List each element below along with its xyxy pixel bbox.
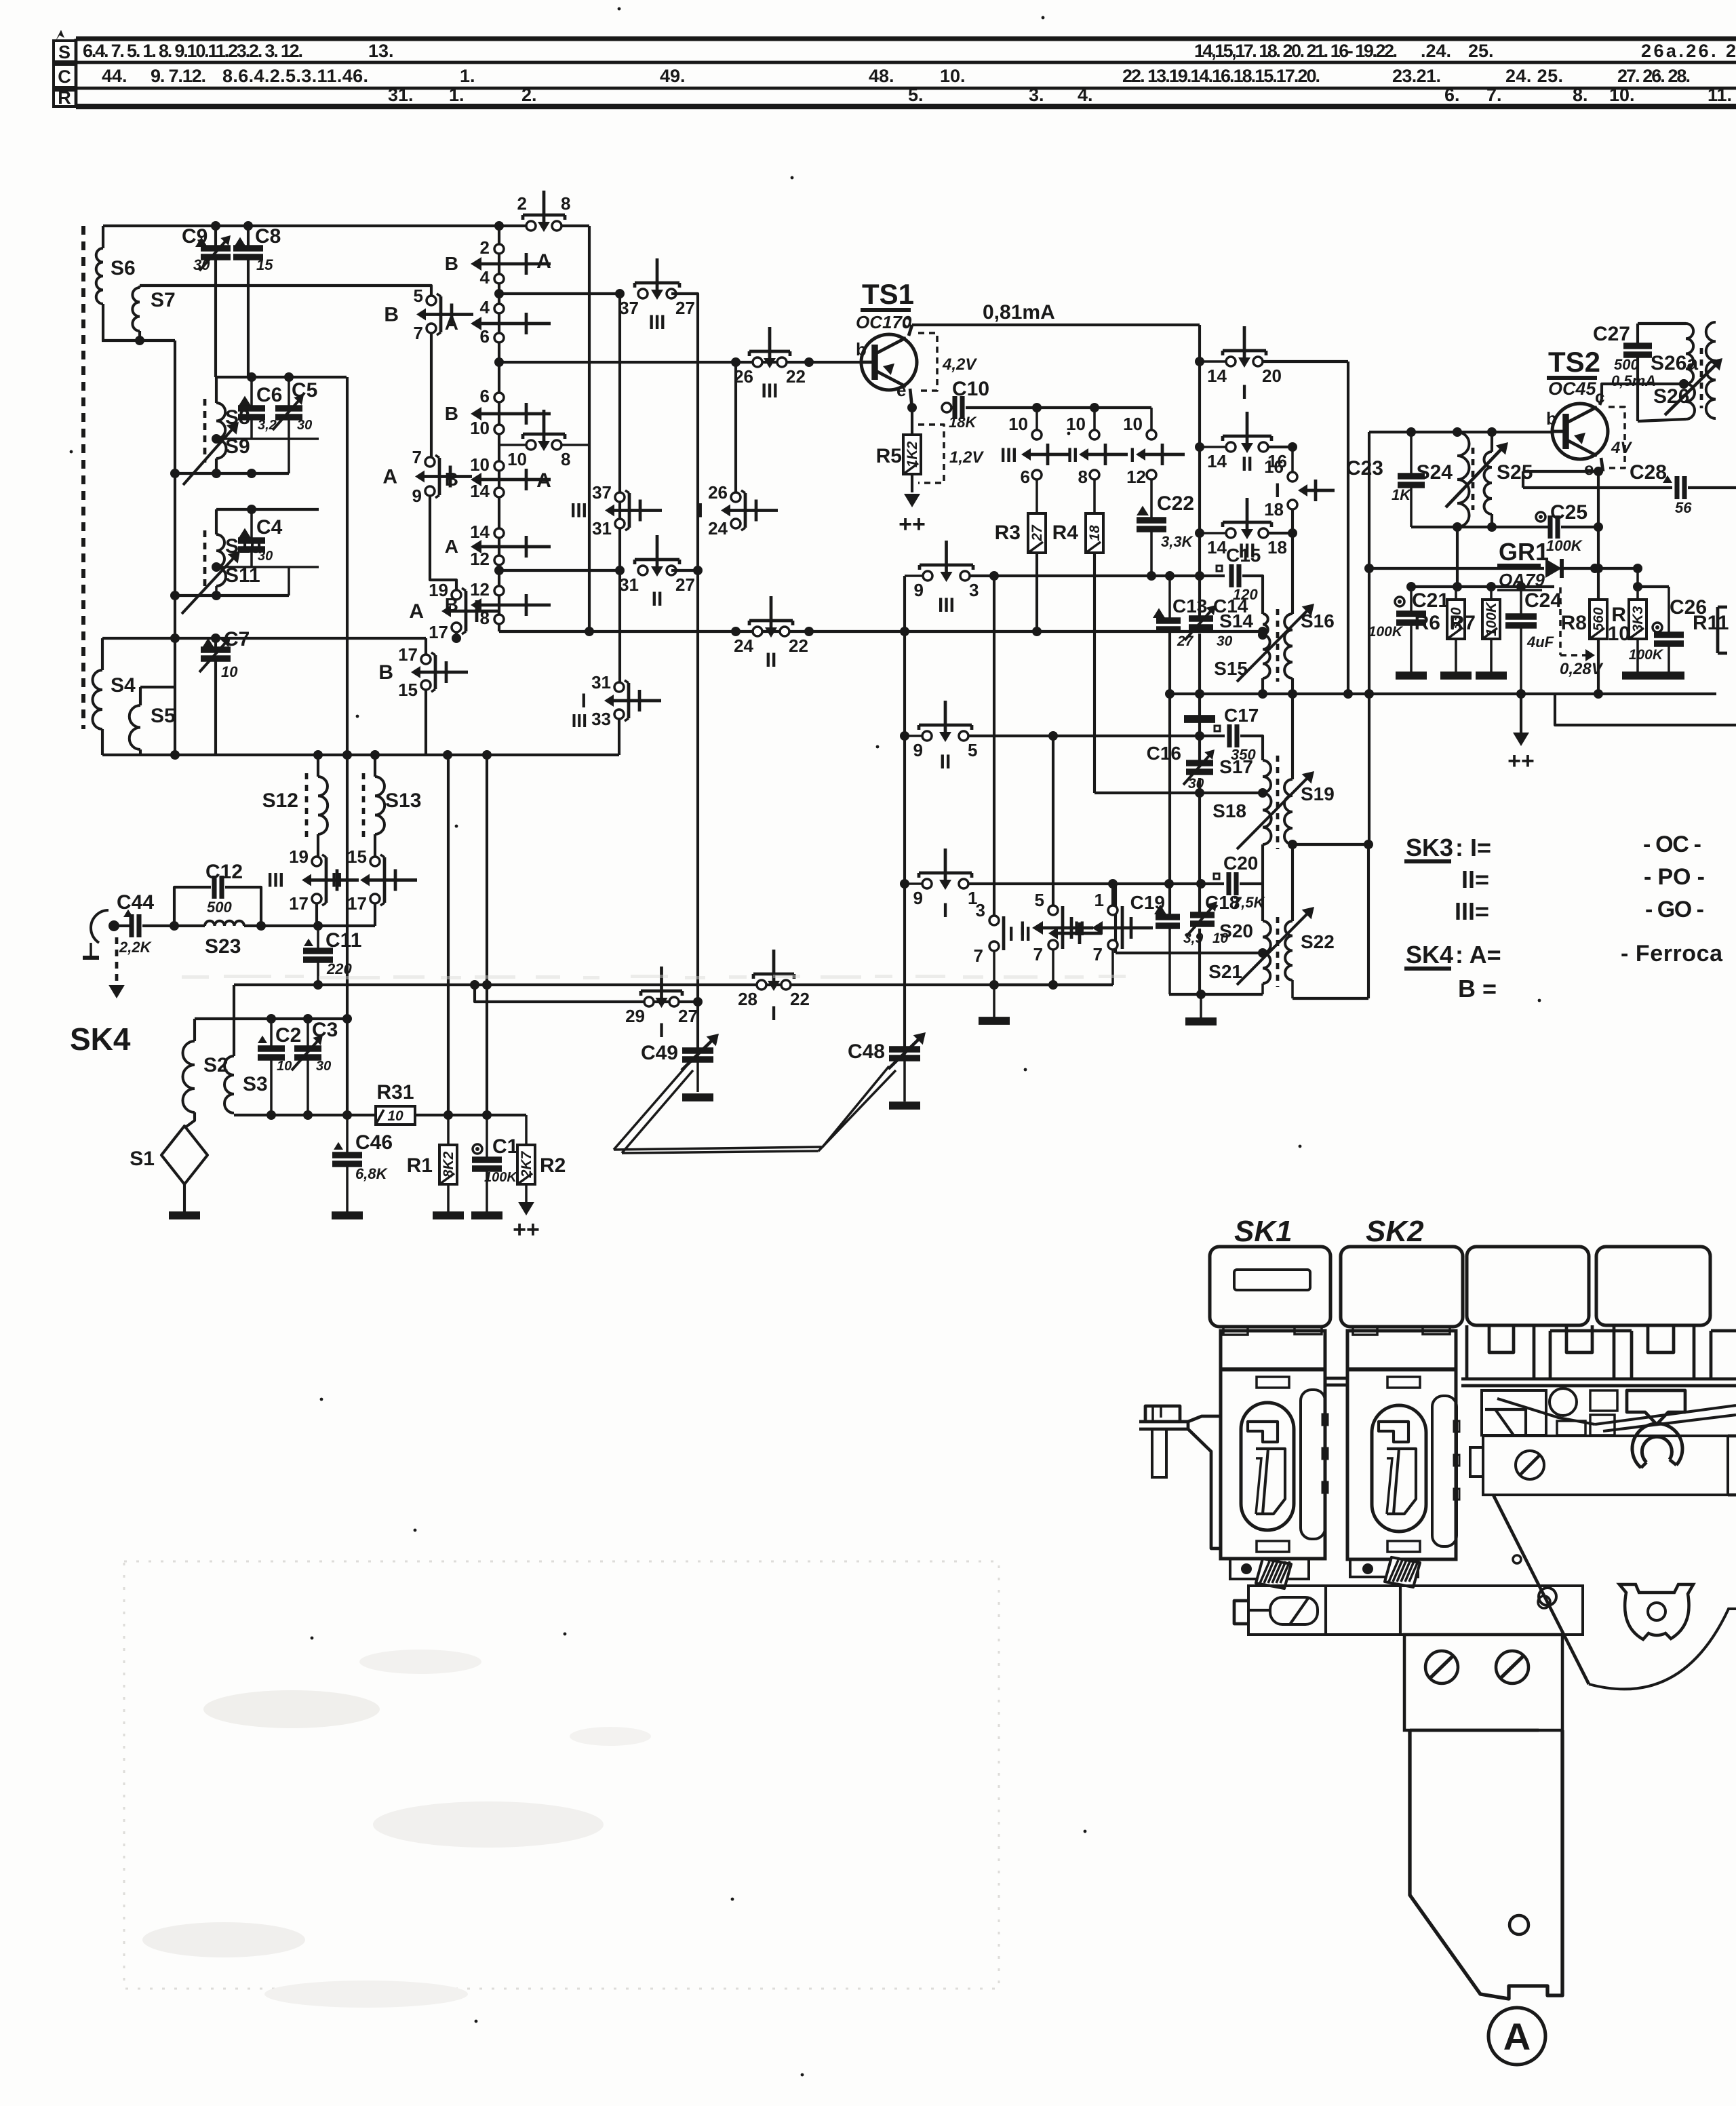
frame cable lines xyxy=(1595,1405,1736,1424)
capacitor C20 xyxy=(1214,874,1219,879)
switch contact pair 14/20 I xyxy=(1200,360,1227,363)
svg-text:3: 3 xyxy=(976,900,985,920)
wire 37/27 III rail xyxy=(499,292,620,295)
svg-text:18: 18 xyxy=(1087,525,1103,541)
svg-text:500: 500 xyxy=(207,899,232,916)
svg-text:III: III xyxy=(938,594,955,617)
svg-text:C20: C20 xyxy=(1223,853,1258,874)
svg-text:17: 17 xyxy=(398,644,418,665)
coil S21 xyxy=(1263,953,1270,983)
svg-text:7: 7 xyxy=(1093,944,1103,964)
svg-text:20: 20 xyxy=(1262,366,1282,386)
svg-text:10: 10 xyxy=(1123,414,1143,434)
frame slide plate xyxy=(1482,1390,1546,1435)
svg-text:S12: S12 xyxy=(262,789,298,812)
svg-text:II: II xyxy=(1067,444,1078,467)
svg-text:B: B xyxy=(445,253,458,274)
svg-text:28: 28 xyxy=(738,989,757,1009)
coil S15 xyxy=(1263,635,1270,678)
svg-text:560: 560 xyxy=(1591,607,1606,631)
wire S22 box to x2018 xyxy=(1293,997,1368,1000)
svg-text:10: 10 xyxy=(470,454,490,475)
switch contact pair 14/18 III xyxy=(1200,532,1227,534)
ground below switch rail xyxy=(993,985,995,1017)
capacitor C23 xyxy=(1410,432,1413,474)
wire row 9/3 to C15 xyxy=(969,574,1225,577)
svg-text:10.: 10. xyxy=(940,66,966,86)
svg-text:R11: R11 xyxy=(1693,612,1729,634)
wire S10 box top xyxy=(216,508,319,511)
switch 17/B/15 xyxy=(434,655,437,689)
svg-text:1.: 1. xyxy=(460,66,475,86)
svg-text:9. 7.12.: 9. 7.12. xyxy=(151,66,206,86)
svg-text:B: B xyxy=(445,469,458,490)
wire R10 to C26 xyxy=(1638,585,1669,588)
switch 3/I II/7 xyxy=(993,576,995,916)
svg-text:I: I xyxy=(1275,480,1280,502)
switch 31/I-III/33 xyxy=(627,683,631,718)
svg-text:C2: C2 xyxy=(275,1024,301,1047)
switch contact pair 2/8 A xyxy=(523,214,565,217)
svg-text:12: 12 xyxy=(1126,467,1146,487)
resistor R6 xyxy=(1455,587,1457,600)
svg-text:B =: B = xyxy=(1458,975,1497,1002)
svg-text:22. 13.19.14.16.18.15.17.20.: 22. 13.19.14.16.18.15.17.20. xyxy=(1122,66,1320,86)
svg-text:5: 5 xyxy=(414,286,423,306)
wire C23 S24 bottom xyxy=(1411,526,1492,528)
svg-text:III: III xyxy=(648,311,665,334)
diode GR1 xyxy=(1545,559,1562,578)
coil S25 xyxy=(1491,432,1493,452)
svg-text:22: 22 xyxy=(786,366,806,387)
svg-text:3.: 3. xyxy=(1029,85,1044,105)
wire bottom contacts rail xyxy=(993,983,1113,986)
mount bracket left xyxy=(1139,1422,1188,1429)
svg-text:100K: 100K xyxy=(484,1170,517,1185)
svg-text:++: ++ xyxy=(513,1217,540,1243)
svg-text:C4: C4 xyxy=(256,516,283,539)
contacts 10/14 B xyxy=(494,461,504,471)
svg-text:2,2K: 2,2K xyxy=(119,939,153,956)
wire 31/27 to x1029 xyxy=(671,569,698,572)
scan specks xyxy=(618,7,621,11)
svg-text:17: 17 xyxy=(289,893,309,914)
svg-text:17: 17 xyxy=(429,622,448,642)
svg-text:C48: C48 xyxy=(848,1040,885,1063)
svg-text:1: 1 xyxy=(1094,890,1104,910)
svg-text:C12: C12 xyxy=(205,861,243,883)
resistor R8 xyxy=(1590,600,1607,639)
pulley plate xyxy=(1493,1495,1589,1684)
svg-text:C44: C44 xyxy=(117,891,154,914)
svg-text:2: 2 xyxy=(517,193,527,214)
transistor TS2 xyxy=(1552,404,1608,459)
contacts 2/4 B xyxy=(494,244,504,254)
wire TS1 base rail xyxy=(499,361,863,364)
svg-text:II: II xyxy=(1242,453,1253,475)
wire x661 from top xyxy=(447,755,450,1115)
svg-text:I II: I II xyxy=(1008,923,1031,945)
plate hole small xyxy=(1539,1588,1556,1605)
svg-text:5: 5 xyxy=(1035,890,1044,910)
svg-text:9: 9 xyxy=(913,888,923,908)
svg-text:TS2: TS2 xyxy=(1548,346,1600,378)
wire S10/S11 tap xyxy=(216,566,319,568)
svg-text:C7: C7 xyxy=(224,628,250,650)
svg-text:A: A xyxy=(445,313,458,334)
key body 1 outline xyxy=(1221,1331,1325,1559)
svg-text:S22: S22 xyxy=(1301,931,1335,952)
wire rail y1477 xyxy=(475,985,698,1002)
wire lower rail to right edge xyxy=(1555,694,1736,725)
key cap 3 xyxy=(1467,1247,1589,1325)
svg-text:8.: 8. xyxy=(1573,85,1588,105)
svg-text:23.21.: 23.21. xyxy=(1392,66,1441,86)
core S10/S11 dashed xyxy=(203,530,207,590)
core T2 dashed xyxy=(1276,756,1280,849)
svg-text:5.: 5. xyxy=(908,85,924,105)
svg-text:30: 30 xyxy=(1217,633,1233,649)
arrow T3 tuning xyxy=(1237,912,1309,985)
svg-text:I: I xyxy=(581,690,587,712)
node TS1 emitter xyxy=(907,403,917,412)
wire C15 to S14 xyxy=(1242,576,1263,614)
svg-text:S20: S20 xyxy=(1219,920,1253,941)
switch 10/III/6 xyxy=(1035,408,1038,430)
svg-text:4uF: 4uF xyxy=(1526,633,1554,650)
view label A xyxy=(1488,2008,1545,2065)
svg-text:II: II xyxy=(331,870,342,892)
base plate left step xyxy=(1234,1601,1248,1624)
capacitor C25 xyxy=(1536,512,1545,522)
svg-text:24. 25.: 24. 25. xyxy=(1505,66,1563,86)
svg-text:e: e xyxy=(896,380,906,400)
capacitor C4 xyxy=(239,528,251,538)
key cap 4 xyxy=(1596,1247,1710,1325)
row label box R xyxy=(54,90,76,106)
svg-text:S18: S18 xyxy=(1212,800,1246,821)
switch contact pair 26/22 III xyxy=(749,350,790,353)
svg-text:30: 30 xyxy=(193,256,210,273)
svg-text:- Ferroca: - Ferroca xyxy=(1621,941,1723,967)
svg-text:31: 31 xyxy=(592,518,612,539)
svg-text:14,15,17. 18. 20. 21. 16- 19.2: 14,15,17. 18. 20. 21. 16- 19.22. xyxy=(1194,41,1398,61)
tank box C27 S26 xyxy=(1638,322,1686,325)
svg-text:C25: C25 xyxy=(1550,501,1587,524)
switch row 9/5 II xyxy=(900,731,909,741)
wire below 9 xyxy=(430,496,456,590)
svg-text:: A=: : A= xyxy=(1455,941,1501,969)
capacitor C18 xyxy=(1190,912,1215,918)
svg-text:19: 19 xyxy=(289,846,309,867)
wire C7 rail xyxy=(102,637,426,640)
svg-text:37: 37 xyxy=(592,482,612,503)
arrow T2 tuning xyxy=(1237,777,1309,849)
coil S7 xyxy=(132,288,140,331)
wire column x1725 xyxy=(1168,576,1171,618)
capacitor C9 xyxy=(195,237,208,247)
svg-text:C1: C1 xyxy=(492,1135,518,1158)
svg-text:SK4: SK4 xyxy=(1406,941,1453,969)
svg-text:GR1: GR1 xyxy=(1499,538,1549,566)
dashed box 4.2V xyxy=(918,333,937,391)
svg-text:1K: 1K xyxy=(1392,486,1412,503)
key body 1 side panel xyxy=(1301,1390,1325,1539)
key body 2 side panel xyxy=(1432,1396,1457,1546)
svg-text:100K: 100K xyxy=(1368,624,1404,640)
svg-text:3,3K: 3,3K xyxy=(1161,533,1194,550)
svg-text:10: 10 xyxy=(470,418,490,438)
coil S8 xyxy=(215,377,218,403)
svg-text:C21: C21 xyxy=(1412,589,1449,612)
coil S3 xyxy=(233,985,235,1056)
capacitor C6 xyxy=(239,396,251,406)
svg-text:10.: 10. xyxy=(1609,85,1635,105)
svg-text:8: 8 xyxy=(561,193,570,214)
wire row 9/1 to C20 xyxy=(968,882,1224,885)
transistor TS1 xyxy=(861,334,917,390)
key body 1 capsule xyxy=(1241,1403,1294,1530)
svg-text:10: 10 xyxy=(1066,414,1086,434)
coil S6 xyxy=(102,226,104,248)
svg-text:I: I xyxy=(698,500,703,522)
wire box top y1502 xyxy=(195,1017,347,1020)
svg-text:1K2: 1K2 xyxy=(905,441,920,467)
svg-text:C22: C22 xyxy=(1157,492,1194,515)
svg-text:18: 18 xyxy=(1264,499,1284,520)
wire 17 to junction xyxy=(455,632,458,638)
lower plate xyxy=(1410,1730,1562,1999)
svg-text:24: 24 xyxy=(708,518,728,539)
svg-text:6: 6 xyxy=(480,386,490,406)
svg-text:C: C xyxy=(58,66,71,87)
wire emitter TS2 down xyxy=(1598,470,1603,473)
svg-text:27: 27 xyxy=(678,1006,698,1026)
coil S26 xyxy=(1686,384,1695,419)
coil S4 xyxy=(101,638,104,670)
svg-text:25.: 25. xyxy=(1468,41,1494,61)
svg-text:C16: C16 xyxy=(1147,743,1181,764)
capacitor C44 xyxy=(114,924,130,927)
switch row 9/1 I xyxy=(900,879,909,889)
svg-text:6.: 6. xyxy=(1444,85,1460,105)
svg-text:48.: 48. xyxy=(869,66,894,86)
key body 2 spring xyxy=(1385,1557,1420,1587)
capacitor C48 tuning xyxy=(903,1051,906,1101)
svg-text:b: b xyxy=(856,339,867,359)
svg-text:SK2: SK2 xyxy=(1366,1215,1424,1248)
wire TS1 collector rail xyxy=(912,324,1200,326)
svg-text:10: 10 xyxy=(387,1108,403,1124)
wire diode line xyxy=(1369,567,1544,570)
switch 16/I/18 xyxy=(1291,447,1294,472)
svg-text:6: 6 xyxy=(1021,467,1030,487)
arrow S26 tuning xyxy=(1665,364,1717,415)
switch row 9/3 III xyxy=(905,574,923,577)
arrow S10/S11 tuning xyxy=(182,556,235,614)
svg-text:12: 12 xyxy=(470,579,490,600)
svg-text:14: 14 xyxy=(1207,537,1227,558)
wire long rail y1452 xyxy=(234,983,1113,986)
node S15 tap xyxy=(1258,627,1267,636)
svg-text:27: 27 xyxy=(675,574,695,595)
switch 10/II/8 xyxy=(1093,408,1096,430)
wire S10 box bottom xyxy=(175,594,289,597)
svg-text:7: 7 xyxy=(414,323,423,343)
svg-text:26a.26. 2: 26a.26. 2 xyxy=(1641,41,1736,61)
coil S12 xyxy=(317,755,319,777)
svg-text:14: 14 xyxy=(1207,451,1227,471)
frame clamp xyxy=(1627,1390,1685,1424)
svg-text:SK1: SK1 xyxy=(1234,1215,1293,1248)
svg-text:II: II xyxy=(652,588,663,610)
wire left long vertical xyxy=(174,340,176,755)
wire C44 to S23 xyxy=(142,924,205,927)
switch 10/I/12 xyxy=(1150,408,1153,430)
svg-text:R2: R2 xyxy=(540,1154,566,1177)
svg-text:II=: II= xyxy=(1461,865,1489,893)
svg-text:500: 500 xyxy=(1614,356,1639,373)
svg-text:S14: S14 xyxy=(1219,610,1253,631)
switch 19/A/17 xyxy=(465,591,468,631)
svg-text:A: A xyxy=(536,250,551,273)
core S26 dashed xyxy=(1700,348,1703,408)
dashed box 1.2V xyxy=(918,425,944,483)
svg-text:10: 10 xyxy=(277,1059,292,1074)
resistor R1 xyxy=(447,1115,450,1146)
svg-text:II: II xyxy=(940,751,951,773)
wire 18 to x1906 xyxy=(1267,532,1293,534)
svg-text:30: 30 xyxy=(258,549,273,564)
wire 33 down to rail xyxy=(618,719,620,755)
svg-text:S26a: S26a xyxy=(1651,352,1698,374)
svg-text:C11: C11 xyxy=(325,929,361,952)
svg-text:- PO -: - PO - xyxy=(1644,864,1705,890)
svg-text:S21: S21 xyxy=(1208,961,1242,982)
switch contact pair 24/22 II xyxy=(749,619,793,623)
key body 2 foot xyxy=(1350,1559,1418,1577)
resistor R31 xyxy=(376,1106,415,1125)
svg-text:10: 10 xyxy=(1008,414,1028,434)
svg-text:III: III xyxy=(1000,444,1017,467)
svg-text:III: III xyxy=(761,380,778,402)
svg-text:6,8K: 6,8K xyxy=(355,1165,389,1182)
frame small blocks xyxy=(1557,1421,1585,1435)
coil S14 xyxy=(1263,614,1268,635)
svg-text:2K7: 2K7 xyxy=(519,1150,534,1178)
svg-text:b: b xyxy=(1546,408,1557,429)
svg-text:SK3: SK3 xyxy=(1406,834,1453,861)
svg-text:C46: C46 xyxy=(355,1131,393,1154)
wire vertical x1988 xyxy=(1347,362,1349,694)
wire S8/S9 tap xyxy=(216,437,319,440)
capacitor C27 xyxy=(1623,343,1652,349)
wire block bottom rail xyxy=(102,754,619,756)
svg-text:C18: C18 xyxy=(1205,892,1240,913)
wire rail after R31 xyxy=(415,1114,526,1116)
ground below T3 xyxy=(1200,994,1202,1019)
svg-text:I: I xyxy=(1242,381,1247,404)
tie bars between bodies xyxy=(1325,1377,1347,1380)
svg-text:I: I xyxy=(943,899,948,922)
svg-text:31: 31 xyxy=(591,672,611,693)
svg-text:C6: C6 xyxy=(256,384,282,406)
coil S5 xyxy=(130,705,140,749)
capacitor C10 xyxy=(942,403,951,412)
wire C10 output xyxy=(966,406,1151,409)
frame comb teeth xyxy=(1465,1325,1469,1378)
svg-text:11.: 11. xyxy=(1708,85,1732,105)
svg-text:C28: C28 xyxy=(1630,461,1667,484)
switch contact pair 29/27 I xyxy=(641,990,682,993)
wire 20 to x1988 xyxy=(1262,360,1348,363)
wire 17 to C44 rail xyxy=(315,903,318,926)
retainer ring xyxy=(1632,1424,1682,1468)
resistor R10 xyxy=(1636,568,1639,600)
capacitor C49 tuning xyxy=(696,1052,699,1092)
svg-text:30: 30 xyxy=(316,1059,331,1074)
svg-text:14: 14 xyxy=(1207,366,1227,386)
lower bracket xyxy=(1404,1635,1562,1730)
node top rail junctions xyxy=(211,221,220,231)
wire long vertical x512 xyxy=(346,377,349,1115)
wire S19 to x2018 xyxy=(1293,843,1368,846)
svg-text:13.: 13. xyxy=(368,41,394,61)
svg-text:56: 56 xyxy=(1675,499,1692,516)
wire S8 box top xyxy=(216,376,347,378)
svg-text:- GO -: - GO - xyxy=(1645,897,1704,922)
svg-text:C17: C17 xyxy=(1224,705,1259,726)
svg-text:S7: S7 xyxy=(151,289,176,311)
base plate xyxy=(1248,1586,1583,1635)
capacitor C28 xyxy=(1663,475,1672,483)
pulley triangle hole xyxy=(1619,1584,1693,1639)
svg-text:III: III xyxy=(570,500,587,522)
svg-text:0,28V: 0,28V xyxy=(1560,660,1604,678)
svg-text:7: 7 xyxy=(974,945,983,966)
coil IF secondary xyxy=(1706,322,1716,418)
key body 2 neck tabs xyxy=(1353,1327,1377,1335)
svg-text:R5: R5 xyxy=(876,445,902,467)
svg-text:C27: C27 xyxy=(1593,323,1630,345)
svg-text:22: 22 xyxy=(790,989,810,1009)
coil S24 xyxy=(1457,432,1469,527)
svg-text:A: A xyxy=(409,600,424,623)
pulley hub hole xyxy=(1648,1603,1665,1620)
wire collector to tank xyxy=(1602,384,1684,399)
capacitor C3 xyxy=(307,1019,309,1049)
capacitor C26 xyxy=(1653,623,1662,632)
core S12 dashed xyxy=(305,773,309,838)
plate pin hole xyxy=(1513,1555,1521,1563)
antenna boundary dashed line xyxy=(81,226,85,729)
crystal S1 xyxy=(161,1126,208,1184)
wire 16 to x1906 xyxy=(1267,446,1293,448)
svg-text:R4: R4 xyxy=(1052,522,1079,544)
svg-text:29: 29 xyxy=(625,1006,645,1026)
core S13 dashed xyxy=(362,773,366,838)
svg-text:C19: C19 xyxy=(1130,892,1165,913)
svg-text:B: B xyxy=(378,661,393,684)
resistor R5 xyxy=(911,408,913,435)
svg-text:0,81mA: 0,81mA xyxy=(983,301,1055,324)
wire bottom of T3 caps xyxy=(1169,993,1263,996)
svg-text:S17: S17 xyxy=(1219,756,1253,777)
wire oscillator column x1769 xyxy=(1198,325,1201,616)
svg-text:S13: S13 xyxy=(385,789,421,812)
svg-text:22: 22 xyxy=(789,636,808,656)
svg-text:e: e xyxy=(1584,459,1594,479)
